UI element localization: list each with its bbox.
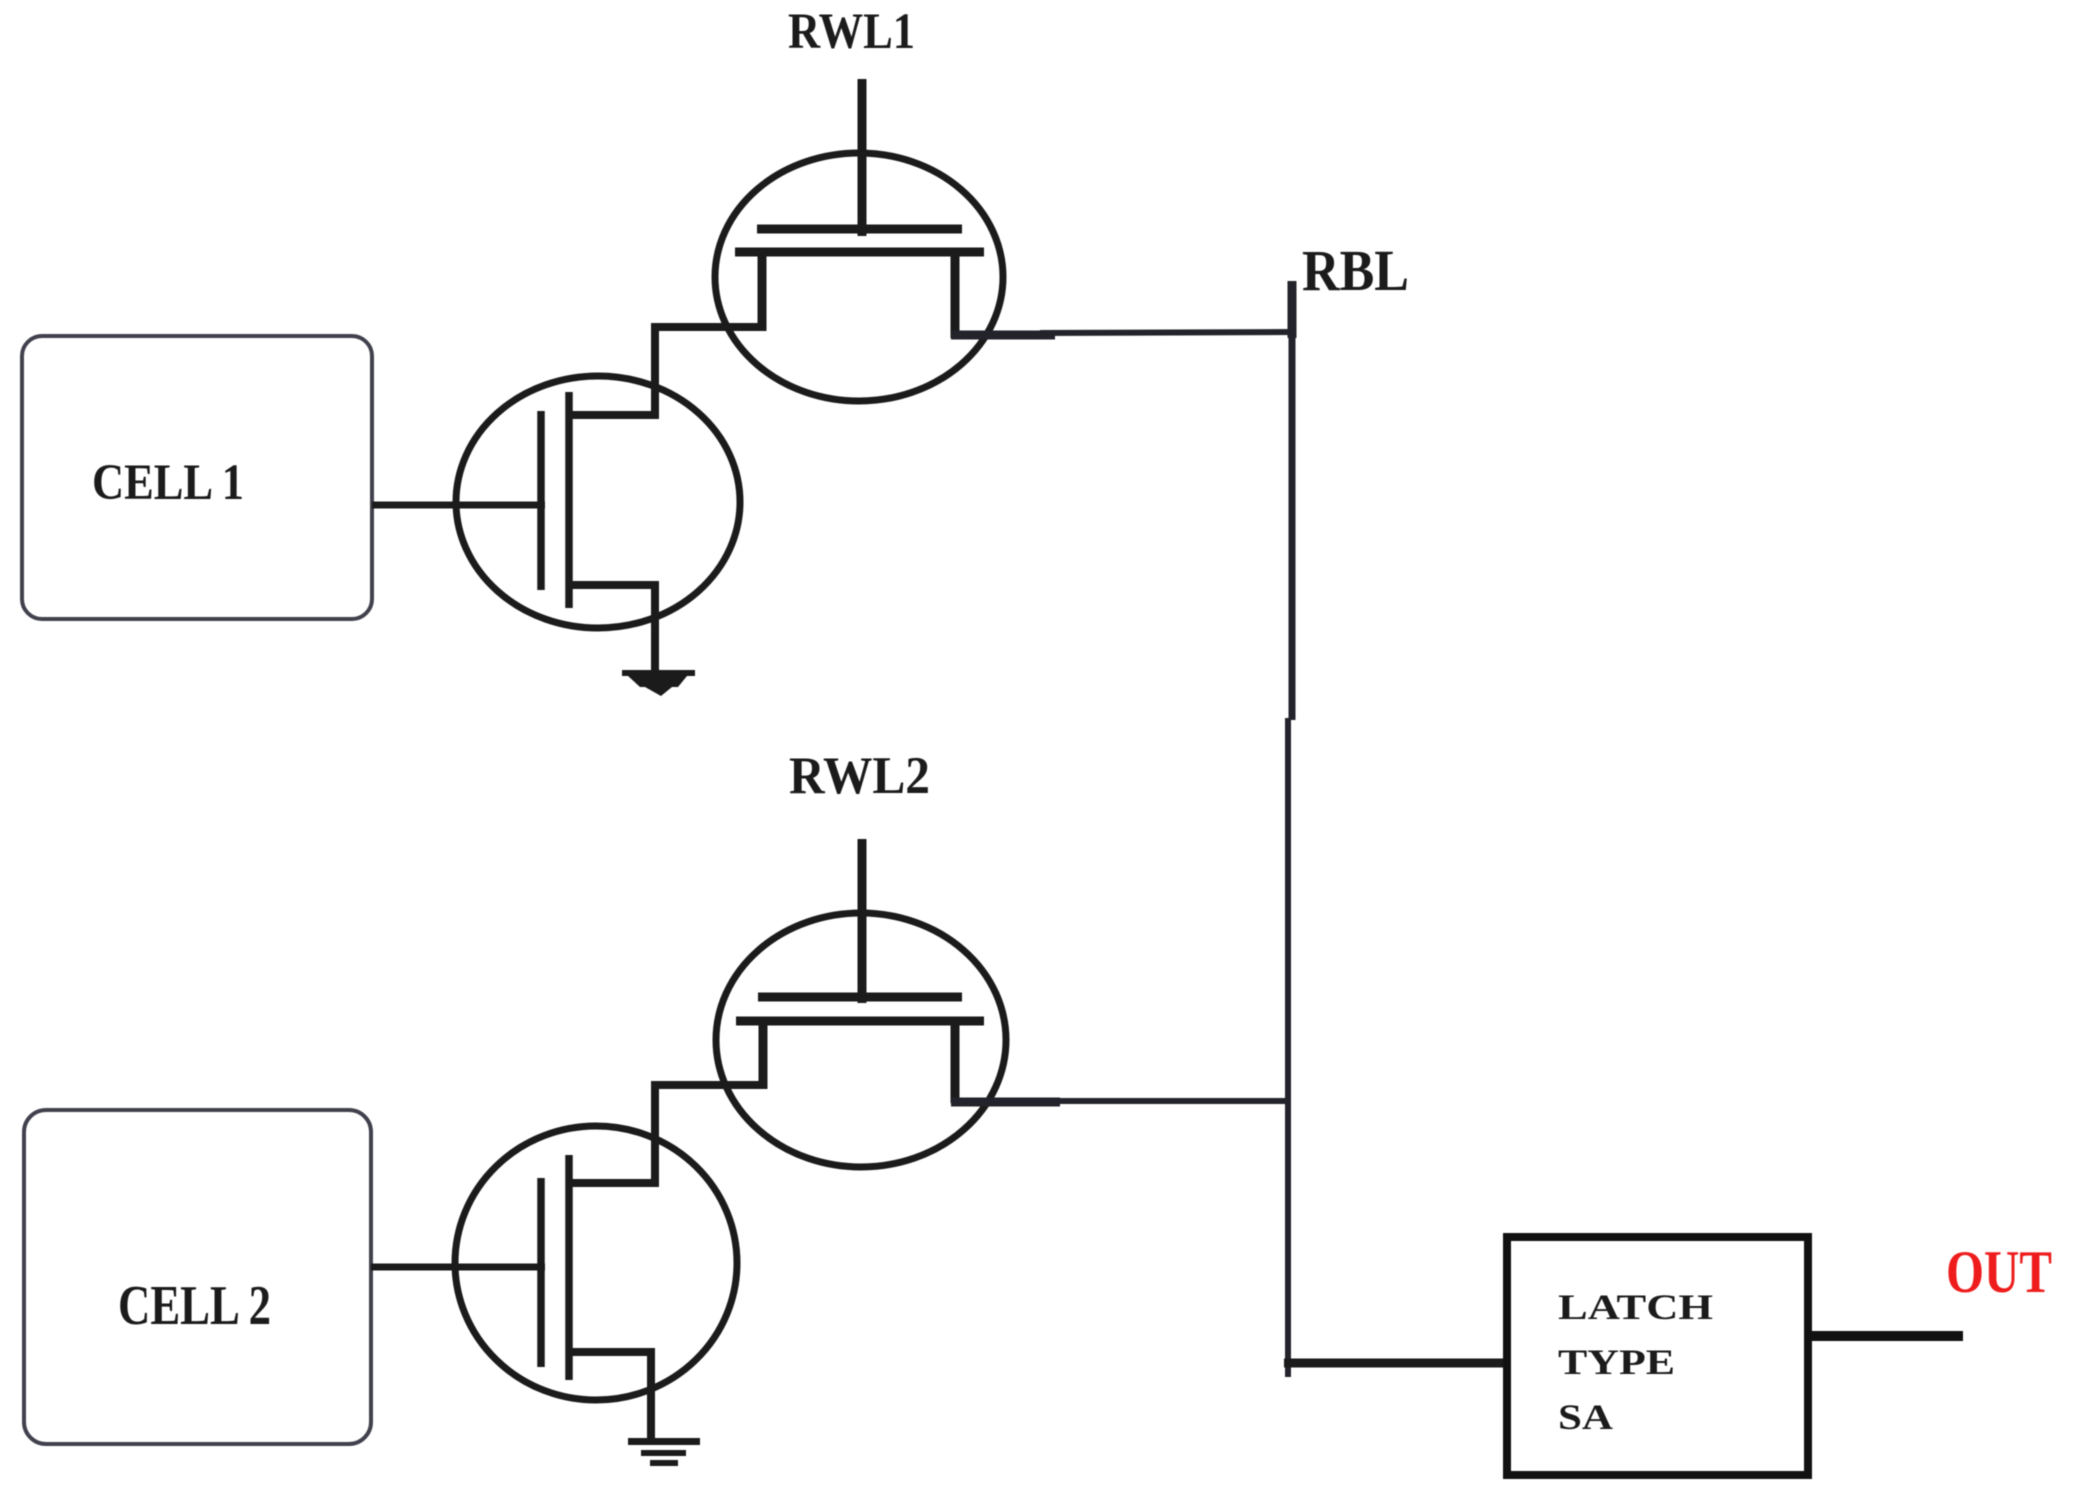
wire T1 source to M1 drain (zigzag) bbox=[569, 323, 766, 419]
svg-text:TYPE: TYPE bbox=[1558, 1342, 1675, 1382]
svg-text:RBL: RBL bbox=[1302, 238, 1409, 303]
wire CELL 2 to M2 gate bbox=[371, 1264, 545, 1271]
block LATCH TYPE SA bbox=[1507, 1237, 1808, 1475]
svg-text:OUT: OUT bbox=[1946, 1239, 2052, 1305]
transistor M1 (CELL 1 storage transistor) bbox=[456, 376, 740, 672]
block CELL 1 bbox=[22, 336, 372, 619]
label RWL2 bbox=[789, 747, 930, 805]
svg-text:LATCH: LATCH bbox=[1558, 1287, 1713, 1327]
wire CELL 1 to M1 gate bbox=[372, 502, 545, 509]
net RBL vertical line bbox=[1288, 281, 1292, 1377]
ground (M1 source) bbox=[622, 670, 695, 696]
label RBL bbox=[1302, 238, 1409, 303]
svg-text:RWL2: RWL2 bbox=[789, 747, 930, 805]
svg-text:CELL 1: CELL 1 bbox=[92, 455, 244, 511]
svg-text:SA: SA bbox=[1558, 1397, 1613, 1437]
label RWL1 bbox=[788, 4, 915, 60]
svg-text:RWL1: RWL1 bbox=[788, 4, 915, 60]
wire T2 source to M2 drain (zigzag) bbox=[569, 1081, 767, 1187]
wire T1 drain to RBL bbox=[951, 332, 1295, 335]
block CELL 2 bbox=[24, 1110, 371, 1444]
wire T2 drain to RBL bbox=[951, 1101, 1291, 1102]
transistor T1 (RWL1 read pass gate) bbox=[715, 79, 1003, 401]
ground (M2 source) bbox=[628, 1438, 700, 1466]
transistor T2 (RWL2 read pass gate) bbox=[716, 839, 1006, 1167]
wire RBL to latch input bbox=[1284, 1359, 1509, 1368]
label OUT bbox=[1946, 1239, 2052, 1305]
wire latch output bbox=[1808, 1331, 1963, 1341]
transistor M2 (CELL 2 storage transistor) bbox=[455, 1126, 737, 1441]
svg-text:CELL 2: CELL 2 bbox=[118, 1275, 271, 1337]
